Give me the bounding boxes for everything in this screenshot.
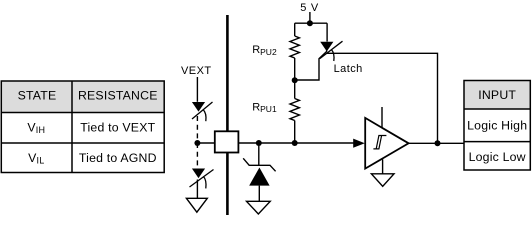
svg-text:Tied to VEXT: Tied to VEXT [80, 121, 155, 135]
svg-text:RESISTANCE: RESISTANCE [78, 88, 158, 102]
svg-text:Latch: Latch [334, 63, 363, 75]
svg-text:RPU1: RPU1 [252, 101, 277, 114]
svg-text:VEXT: VEXT [181, 65, 212, 77]
svg-text:INPUT: INPUT [478, 88, 516, 102]
svg-text:Logic Low: Logic Low [469, 150, 526, 164]
svg-text:Logic High: Logic High [467, 118, 527, 132]
svg-text:Tied to AGND: Tied to AGND [79, 151, 157, 165]
svg-text:RPU2: RPU2 [252, 44, 277, 57]
svg-text:STATE: STATE [18, 88, 57, 102]
svg-text:5 V: 5 V [300, 2, 319, 14]
